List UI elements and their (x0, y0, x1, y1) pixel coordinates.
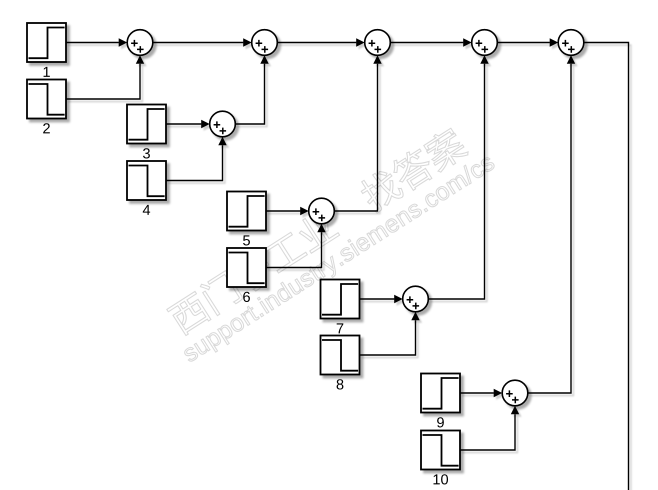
step source block 10 (421, 431, 460, 470)
step source block 9 (421, 374, 460, 413)
step source block 7 (321, 280, 360, 319)
label 2 (43, 123, 50, 133)
wire sum S4 to sum S5 (497, 38, 558, 46)
wire sum SD to sum S5 bottom (528, 55, 575, 393)
sum block S2 (252, 30, 278, 56)
label 1 (44, 67, 50, 77)
wire sum SA to sum S2 bottom (235, 55, 268, 124)
step source block 5 (227, 192, 266, 231)
label 9 (437, 417, 444, 427)
sum block S3 (365, 30, 391, 56)
wire block7 to sum SC (360, 295, 403, 303)
sum block SA (210, 111, 236, 137)
label 10 (433, 474, 448, 484)
wire sum S5 output to right edge and down (584, 43, 629, 490)
wire block10 to sum SD bottom (460, 406, 519, 450)
watermark: siemens industry support diagonal text (158, 117, 499, 367)
sum block S5 (558, 30, 584, 56)
sum block SD (502, 380, 528, 406)
wire block3 to sum SA (166, 120, 210, 128)
step source block 8 (321, 336, 360, 375)
wire sum S3 to sum S4 (390, 38, 471, 46)
wire block4 to sum SA bottom (166, 137, 227, 181)
wire sum SC to sum S4 bottom (428, 55, 488, 299)
step source block 6 (227, 248, 266, 287)
sum block SC (403, 286, 429, 312)
wire block6 to sum SB bottom (266, 224, 326, 268)
wire block2 to sum S1 bottom (66, 55, 144, 99)
label 8 (337, 379, 344, 389)
step source block 2 (27, 80, 66, 119)
wire block9 to sum SD (460, 389, 502, 397)
wire sum SB to sum S3 bottom (334, 55, 381, 211)
wire block1 to sum S1 (66, 38, 127, 46)
wire block5 to sum SB (266, 207, 309, 215)
label 7 (337, 323, 344, 333)
sum block S1 (127, 30, 153, 56)
sum block SB (309, 198, 335, 224)
wire block8 to sum SC bottom (360, 312, 420, 355)
step source block 1 (27, 23, 66, 62)
label 6 (243, 292, 250, 302)
wire sum S1 to sum S2 (153, 38, 252, 46)
label 3 (143, 148, 150, 158)
label 5 (243, 235, 250, 245)
label 4 (143, 205, 150, 215)
step source block 3 (127, 105, 166, 144)
wire sum S2 to sum S3 (277, 38, 364, 46)
sum block S4 (472, 30, 498, 56)
step source block 4 (127, 161, 166, 200)
